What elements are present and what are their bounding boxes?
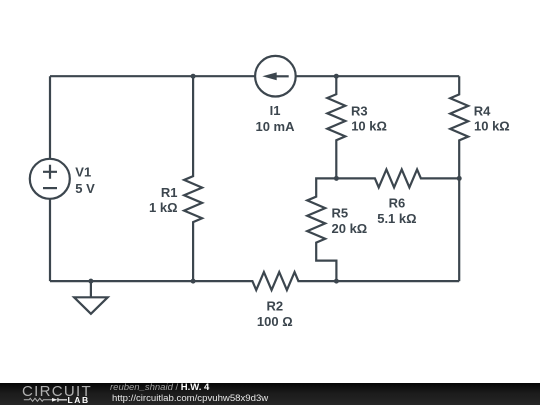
junction node R6/R4 [457, 176, 462, 181]
resistor R5 [307, 178, 336, 281]
svg-text:R4: R4 [474, 103, 491, 118]
V1 minus sign [43, 187, 57, 189]
resistor R3 [327, 76, 345, 178]
ground symbol [74, 281, 108, 314]
svg-text:10 mA: 10 mA [255, 119, 295, 134]
logo resistor squiggle [24, 398, 52, 401]
I1 arrow head [262, 72, 276, 80]
svg-text:10 kΩ: 10 kΩ [474, 119, 510, 134]
logo diode bar [58, 398, 67, 402]
svg-text:http://circuitlab.com/cpvuhw58: http://circuitlab.com/cpvuhw58x9d3w [112, 393, 268, 404]
svg-text:R3: R3 [351, 103, 368, 118]
junction node ground [88, 279, 93, 284]
svg-text:5.1 kΩ: 5.1 kΩ [377, 211, 416, 226]
svg-text:V1: V1 [75, 165, 91, 180]
svg-text:5 V: 5 V [75, 181, 95, 196]
junction node bottom R1 [191, 279, 196, 284]
resistor R1 [184, 76, 202, 281]
svg-text:R5: R5 [332, 206, 349, 221]
resistor R6 [336, 169, 459, 187]
V1 plus sign [43, 165, 57, 179]
svg-text:LAB: LAB [68, 395, 90, 405]
resistor R4 [450, 76, 468, 281]
svg-text:20 kΩ: 20 kΩ [332, 221, 368, 236]
I1 arrow shaft [275, 75, 289, 77]
svg-text:R1: R1 [161, 185, 178, 200]
junction node top R3 [334, 74, 339, 79]
svg-text:100 Ω: 100 Ω [257, 314, 293, 329]
svg-text:1 kΩ: 1 kΩ [149, 200, 178, 215]
svg-text:I1: I1 [270, 103, 281, 118]
svg-text:10 kΩ: 10 kΩ [351, 119, 387, 134]
svg-text:R2: R2 [266, 298, 283, 313]
footer bar [0, 383, 540, 405]
junction node bottom R5 [334, 279, 339, 284]
resistor R2 (bottom rail) [50, 272, 459, 290]
current source I1 [255, 56, 296, 97]
junction node top R1 [191, 74, 196, 79]
junction node R3/R5/R6 [334, 176, 339, 181]
svg-text:reuben_shnaid / H.W. 4: reuben_shnaid / H.W. 4 [110, 382, 210, 393]
voltage source V1 [30, 159, 70, 199]
svg-text:R6: R6 [389, 196, 406, 211]
wire left branch [49, 76, 51, 281]
logo diode [52, 398, 58, 402]
wire top rail [50, 75, 459, 77]
